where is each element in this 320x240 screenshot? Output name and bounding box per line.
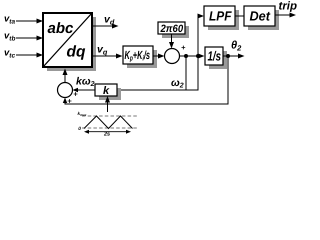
- svg-text:1/s: 1/s: [208, 50, 222, 65]
- svg-text:trip: trip: [279, 1, 298, 13]
- svg-text:2π60: 2π60: [160, 23, 184, 35]
- svg-text:+: +: [181, 43, 186, 52]
- svg-text:0: 0: [78, 126, 81, 132]
- svg-text:Kp+Ki/s: Kp+Ki/s: [125, 49, 151, 62]
- svg-text:Det: Det: [250, 9, 272, 24]
- svg-text:k: k: [103, 85, 110, 97]
- svg-text:kmax: kmax: [78, 111, 87, 117]
- svg-text:+: +: [67, 96, 72, 105]
- svg-text:+: +: [73, 90, 78, 99]
- svg-text:dq: dq: [67, 44, 86, 61]
- svg-text:abc: abc: [48, 20, 75, 37]
- svg-text:LPF: LPF: [209, 9, 232, 24]
- svg-text:2s: 2s: [103, 132, 110, 137]
